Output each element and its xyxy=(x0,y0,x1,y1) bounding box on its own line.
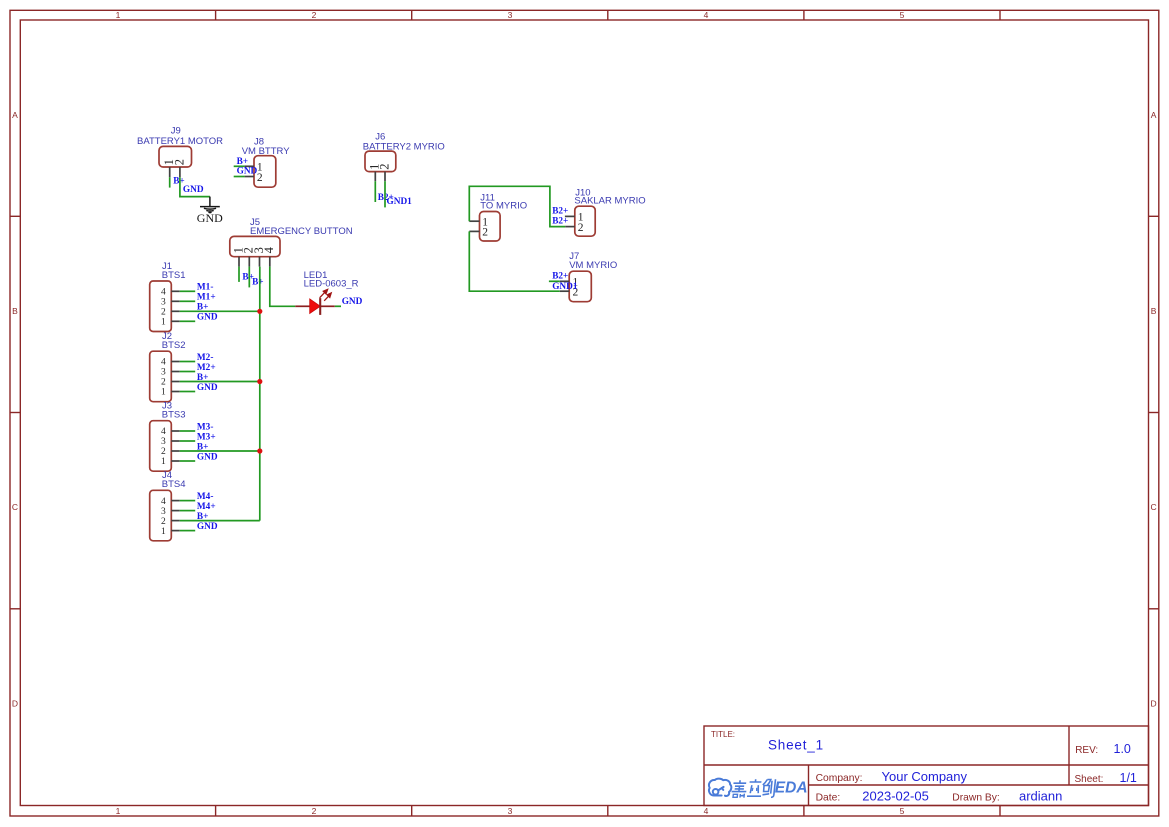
svg-text:2023-02-05: 2023-02-05 xyxy=(862,789,929,804)
svg-text:C: C xyxy=(12,502,18,512)
svg-text:M1-: M1- xyxy=(197,283,214,293)
wire stub J5 pin 1 xyxy=(238,267,240,282)
svg-text:Date:: Date: xyxy=(816,793,841,804)
wire stub J3 pin 4 xyxy=(180,430,196,432)
wire stub J4 pin 3 xyxy=(180,510,196,512)
svg-text:5: 5 xyxy=(900,806,905,816)
svg-text:2: 2 xyxy=(377,164,391,170)
connector J1 (BTS1) xyxy=(150,261,186,332)
svg-text:B2+: B2+ xyxy=(552,272,568,282)
wire stub J7 pin 1 xyxy=(549,280,560,282)
svg-text:TITLE:: TITLE: xyxy=(711,730,735,739)
svg-text:2: 2 xyxy=(161,378,166,388)
svg-text:B+: B+ xyxy=(197,373,209,383)
svg-text:3: 3 xyxy=(161,437,166,447)
junction on B+ bus at J2 pin 2 xyxy=(257,379,262,384)
svg-text:B2+: B2+ xyxy=(552,216,568,226)
wire stub J6 pin 1 xyxy=(374,181,376,202)
connector J11 (TO MYRIO) xyxy=(469,193,527,242)
svg-text:B: B xyxy=(12,306,18,316)
svg-text:3: 3 xyxy=(161,368,166,378)
wire from J11 pin 1 to J10 pin 2 xyxy=(469,186,565,226)
svg-text:EMERGENCY BUTTON: EMERGENCY BUTTON xyxy=(250,226,353,237)
svg-text:GND1: GND1 xyxy=(387,197,413,207)
wire from J5 pin 4 to LED1 anode xyxy=(270,267,296,307)
svg-text:4: 4 xyxy=(161,358,166,368)
wire B+ from J1 pin 2 to bus xyxy=(180,310,260,312)
svg-text:A: A xyxy=(1151,110,1157,120)
svg-text:3: 3 xyxy=(161,507,166,517)
svg-text:BTS3: BTS3 xyxy=(162,410,186,421)
wire stub J2 pin 4 xyxy=(180,361,196,363)
svg-text:2: 2 xyxy=(161,308,166,318)
JLCEDA logo xyxy=(709,779,808,798)
connector J5 (EMERGENCY BUTTON) xyxy=(230,217,353,266)
svg-text:D: D xyxy=(1151,698,1157,708)
svg-text:EDA: EDA xyxy=(775,780,808,797)
svg-text:M3+: M3+ xyxy=(197,432,216,442)
connector J9 (BATTERY1 MOTOR) xyxy=(137,126,223,178)
wire stub J9 pin 1 xyxy=(169,177,171,187)
svg-text:GND: GND xyxy=(197,211,223,225)
svg-text:GND: GND xyxy=(197,383,218,393)
svg-text:M3-: M3- xyxy=(197,422,214,432)
svg-text:B+: B+ xyxy=(197,512,209,522)
svg-text:1: 1 xyxy=(161,527,166,537)
svg-text:GND: GND xyxy=(197,313,218,323)
wire stub J4 pin 4 xyxy=(180,500,196,502)
svg-text:1: 1 xyxy=(161,388,166,398)
wire stub J1 pin 1 xyxy=(180,320,196,322)
svg-text:2: 2 xyxy=(161,517,166,527)
svg-text:GND: GND xyxy=(342,297,363,307)
wire stub J8 pin 1 xyxy=(234,165,245,167)
wire GND from J9 pin 2 xyxy=(180,177,210,196)
svg-text:2: 2 xyxy=(257,172,263,184)
svg-text:VM MYRIO: VM MYRIO xyxy=(569,260,617,271)
svg-text:M1+: M1+ xyxy=(197,293,216,303)
svg-text:GND: GND xyxy=(197,452,218,462)
svg-text:4: 4 xyxy=(161,427,166,437)
svg-text:M2-: M2- xyxy=(197,353,214,363)
svg-text:B+: B+ xyxy=(252,277,264,287)
wire stub J4 pin 1 xyxy=(180,530,196,532)
svg-text:SAKLAR MYRIO: SAKLAR MYRIO xyxy=(574,195,645,206)
svg-text:B+: B+ xyxy=(237,157,249,167)
svg-text:A: A xyxy=(12,110,18,120)
svg-text:Drawn By:: Drawn By: xyxy=(952,793,1000,804)
svg-text:2: 2 xyxy=(578,222,584,234)
svg-text:1: 1 xyxy=(116,806,121,816)
wire B+ from J2 pin 2 to bus xyxy=(180,381,260,383)
svg-text:Sheet:: Sheet: xyxy=(1075,774,1104,785)
svg-text:ardiann: ardiann xyxy=(1019,789,1062,804)
wire B+ bus vertical from J5 pin 3 xyxy=(259,267,261,521)
svg-text:4: 4 xyxy=(262,246,276,253)
svg-text:BTS4: BTS4 xyxy=(162,479,186,490)
wire stub J5 pin 2 xyxy=(248,267,250,288)
wire stub J8 pin 2 xyxy=(234,176,245,178)
connector J3 (BTS3) xyxy=(150,401,186,472)
svg-text:B: B xyxy=(1151,306,1157,316)
connector J7 (VM MYRIO) xyxy=(560,251,617,302)
svg-text:M4+: M4+ xyxy=(197,502,216,512)
svg-text:2: 2 xyxy=(482,227,488,239)
wire B+ from J3 pin 2 to bus xyxy=(180,450,260,452)
svg-text:1/1: 1/1 xyxy=(1120,771,1137,785)
svg-text:2: 2 xyxy=(312,806,317,816)
svg-text:3: 3 xyxy=(508,10,513,20)
wire stub J1 pin 3 xyxy=(180,300,196,302)
svg-text:M2+: M2+ xyxy=(197,363,216,373)
connector J10 (SAKLAR MYRIO) xyxy=(565,188,646,237)
svg-text:TO MYRIO: TO MYRIO xyxy=(480,201,527,212)
wire stub J2 pin 3 xyxy=(180,371,196,373)
svg-text:B+: B+ xyxy=(197,442,209,452)
svg-text:4: 4 xyxy=(161,497,166,507)
svg-text:BATTERY1 MOTOR: BATTERY1 MOTOR xyxy=(137,136,223,147)
svg-text:B2+: B2+ xyxy=(552,207,568,217)
svg-text:GND1: GND1 xyxy=(552,282,578,292)
svg-text:Company:: Company: xyxy=(816,773,863,784)
svg-text:4: 4 xyxy=(704,806,709,816)
svg-text:2: 2 xyxy=(172,159,186,165)
svg-text:4: 4 xyxy=(704,10,709,20)
svg-text:1: 1 xyxy=(161,318,166,328)
svg-text:LED-0603_R: LED-0603_R xyxy=(304,279,359,290)
wire stub J6 pin 2 xyxy=(384,181,386,207)
svg-text:Your Company: Your Company xyxy=(882,769,968,784)
svg-text:GND: GND xyxy=(183,185,204,195)
svg-text:4: 4 xyxy=(161,288,166,298)
title block xyxy=(704,726,1149,806)
svg-text:GND: GND xyxy=(197,522,218,532)
wire stub J1 pin 4 xyxy=(180,290,196,292)
svg-text:GND: GND xyxy=(237,167,258,177)
wire stub J3 pin 1 xyxy=(180,460,196,462)
connector J6 (BATTERY2 MYRIO) xyxy=(363,131,445,181)
LED LED1 (LED-0603_R) xyxy=(295,270,358,315)
svg-text:M4-: M4- xyxy=(197,492,214,502)
svg-text:1.0: 1.0 xyxy=(1114,742,1131,756)
ground symbol GND xyxy=(197,197,223,225)
svg-text:J9: J9 xyxy=(171,126,181,137)
svg-text:BTS2: BTS2 xyxy=(162,340,186,351)
wire from J11 pin 2 to J7 pin 2 xyxy=(469,231,560,291)
wire stub J3 pin 3 xyxy=(180,440,196,442)
connector J8 (VM BTTRY) xyxy=(242,136,291,187)
junction on B+ bus at J3 pin 2 xyxy=(257,448,262,453)
svg-text:5: 5 xyxy=(900,10,905,20)
svg-text:3: 3 xyxy=(508,806,513,816)
wire B+ from J4 pin 2 to bus xyxy=(180,520,260,522)
svg-text:2: 2 xyxy=(161,447,166,457)
connector J4 (BTS4) xyxy=(150,470,186,541)
svg-text:1: 1 xyxy=(116,10,121,20)
svg-text:Sheet_1: Sheet_1 xyxy=(768,737,824,752)
connector J2 (BTS2) xyxy=(150,331,186,402)
svg-text:1: 1 xyxy=(161,457,166,467)
svg-text:2: 2 xyxy=(312,10,317,20)
svg-text:D: D xyxy=(12,698,18,708)
wire stub LED1 cathode xyxy=(335,305,341,307)
wire stub J2 pin 1 xyxy=(180,391,196,393)
svg-text:BTS1: BTS1 xyxy=(162,270,186,281)
junction on B+ bus at J1 pin 2 xyxy=(257,309,262,314)
svg-text:REV:: REV: xyxy=(1075,745,1098,756)
svg-text:B+: B+ xyxy=(197,303,209,313)
svg-text:C: C xyxy=(1151,502,1157,512)
svg-text:3: 3 xyxy=(161,298,166,308)
